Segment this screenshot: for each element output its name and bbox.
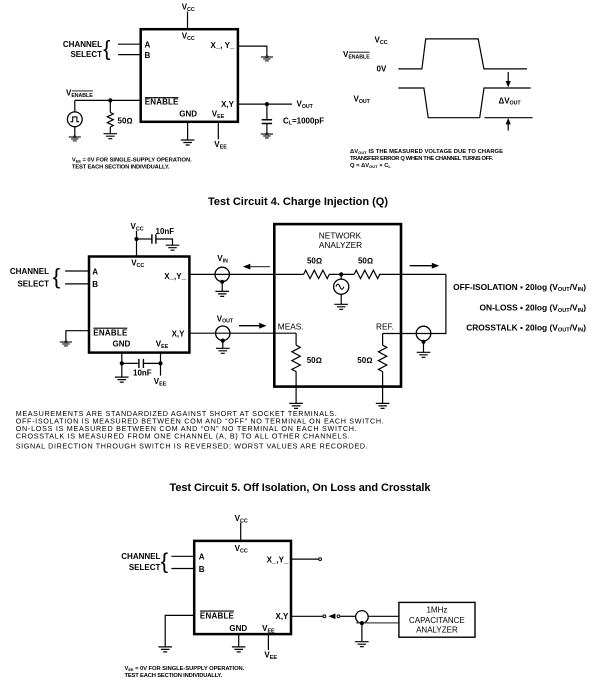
svg-text:ENABLE: ENABLE [145,97,179,106]
wire GND pin [187,122,189,140]
source probe VIN circle [215,267,229,281]
wire X_,Y_ to ground [238,46,267,56]
wire arrowhead left [328,614,335,620]
svg-text:X,Y: X,Y [172,329,186,338]
wire internal top left [276,273,304,275]
wire CL top [266,104,268,119]
svg-text:ON-LOSS ▪ 20log (VOUT/VIN): ON-LOSS ▪ 20log (VOUT/VIN) [480,303,587,314]
wire delta arrow down [507,72,509,83]
svg-text:A: A [145,41,151,50]
wire signal arrow right [239,325,262,327]
wire VEE stub [267,634,269,650]
wire VEE stub [217,122,219,140]
wire VIN to ground [221,282,223,292]
svg-text:VEE = 0V FOR SINGLE-SUPPLY OPE: VEE = 0V FOR SINGLE-SUPPLY OPERATION. [72,157,192,163]
svg-text:0V: 0V [377,65,387,74]
svg-text:CAPACITANCE: CAPACITANCE [409,616,465,625]
svg-text:VENABLE: VENABLE [343,50,370,60]
wire pin B [171,568,194,570]
source probe VOUT circle [216,326,230,340]
terminal open circle X_,Y_ [319,558,322,561]
wire MEAS resistor to ground [295,372,297,404]
node junction dot CL [265,102,269,106]
ground (under X_,Y_) [261,56,273,62]
ground (under pulse source) [69,136,81,142]
svg-text:CHANNEL: CHANNEL [63,40,102,49]
wire Vcc supply stub [187,12,189,30]
svg-text:10nF: 10nF [156,227,175,236]
wire probe to analyzer top [368,615,399,617]
wire output arrow right [410,265,434,267]
wire VOUT to ground [222,341,224,349]
ground (under probe) [355,642,369,647]
svg-text:CROSSTALK ▪ 20log (VOUT/VIN): CROSSTALK ▪ 20log (VOUT/VIN) [466,322,586,333]
svg-text:X,Y: X,Y [221,100,235,109]
svg-text:SELECT: SELECT [129,563,161,572]
svg-text:ANALYZER: ANALYZER [319,240,362,250]
ground (under GND pin) [232,647,246,652]
ground (under resistor) [104,134,118,139]
svg-text:VEE: VEE [156,339,169,350]
node junction dot VEE [158,361,162,365]
svg-text:SIGNAL DIRECTION THROUGH SWITC: SIGNAL DIRECTION THROUGH SWITCH IS REVER… [16,441,368,450]
wire probe to ground [361,623,363,642]
wire X,Y to MEAS [189,332,296,334]
svg-text:50Ω: 50Ω [357,356,372,365]
svg-text:VEE: VEE [212,109,225,120]
resistor R1 50ohm [107,112,113,127]
svg-text:VEE: VEE [262,624,275,635]
wire X_,Y_ open terminal [291,558,318,560]
ground (under CL) [261,133,273,139]
svg-text:VENABLE: VENABLE [66,89,93,99]
source probe REF circle [416,326,431,341]
resistor R5 50ohm vertical [378,345,386,371]
wire pin B [65,283,89,285]
svg-text:1MHz: 1MHz [426,606,447,615]
source V2 (sine generator) [334,279,349,294]
wire Vout lower reference line [485,117,533,119]
wire pin A [118,43,141,45]
terminal open circle X,Y [323,615,326,618]
svg-text:X_,Y_: X_,Y_ [267,556,289,565]
svg-text:50Ω: 50Ω [307,257,322,266]
ground (under 10nF top) [166,245,180,250]
wire source stub [340,274,342,279]
wire REF probe to ground [423,342,425,353]
wire Vcc stub [136,231,138,257]
wire pin A [171,555,194,557]
svg-text:CROSSTALK IS MEASURED FROM ON: CROSSTALK IS MEASURED FROM ONE CHANNEL (… [16,432,350,441]
svg-text:10nF: 10nF [133,368,152,377]
svg-text:VCC: VCC [182,3,195,14]
wire REF to probe loop [383,274,446,333]
wire CL bottom [266,124,268,134]
svg-text:TRANSFER ERROR Q WHEN THE CHAN: TRANSFER ERROR Q WHEN THE CHANNEL TURNS … [350,156,493,162]
wire pulse source bottom [74,127,76,136]
op-amp U3 (network analyzer box) [274,224,401,387]
wire VEE pin down [160,353,162,376]
wire pin B [118,54,141,56]
ground (under ENABLE) [60,341,72,347]
wire resistor top [109,100,111,112]
svg-text:{: { [103,37,110,61]
wire source to ground [340,294,342,304]
ground (under VIN) [215,291,229,296]
wire cap link [122,362,161,364]
svg-text:ENABLE: ENABLE [93,329,128,338]
svg-text:OFF-ISOLATION ▪ 20log (VOUT/VI: OFF-ISOLATION ▪ 20log (VOUT/VIN) [453,282,586,293]
wire Vout trace [398,88,530,118]
svg-text:VEE = 0V FOR SINGLE-SUPPLY OPE: VEE = 0V FOR SINGLE-SUPPLY OPERATION. [125,666,245,672]
wire signal arrow left [248,266,270,268]
svg-text:B: B [199,565,205,574]
svg-text:GND: GND [113,339,131,348]
svg-text:VOUT: VOUT [297,100,314,110]
ground (under GND pin) [115,377,129,382]
ground (under ENABLE) [158,647,172,652]
svg-text:50Ω: 50Ω [307,356,322,365]
wire pulse source top [74,100,76,112]
terminal open circle 2 [337,615,340,618]
resistor R3 50ohm horizontal [354,270,380,278]
svg-text:ΔVOUT: ΔVOUT [499,96,522,106]
svg-text:VEE: VEE [214,140,227,151]
capacitor C2 10nF [139,359,144,368]
wire to probe circle [340,615,356,617]
svg-text:VCC: VCC [375,36,388,47]
svg-text:VCC: VCC [131,258,144,269]
svg-text:B: B [92,280,98,289]
svg-text:VCC: VCC [182,32,195,43]
wire REF branch [382,334,384,346]
node junction dot under probe [360,621,364,625]
svg-text:VOUT: VOUT [217,314,234,324]
svg-text:VOUT: VOUT [354,95,371,105]
svg-text:GND: GND [179,109,197,118]
svg-text:{: { [53,264,61,289]
ground (under REF resistor) [376,403,390,408]
wire cap to ground [156,239,173,245]
svg-text:CHANNEL: CHANNEL [10,267,49,276]
wire X,Y to Vout [238,103,292,105]
svg-text:50Ω: 50Ω [118,116,133,125]
wire enable pulse trace [398,39,527,69]
wire pin A [65,270,89,272]
wire resistor bottom [109,127,111,134]
svg-text:SELECT: SELECT [70,50,102,59]
svg-text:SELECT: SELECT [17,279,49,288]
node junction dot source [339,272,343,276]
svg-text:A: A [199,553,205,562]
svg-text:50Ω: 50Ω [358,257,373,266]
node junction dot under REF probe [421,340,425,344]
ground (under REF probe) [417,352,431,357]
resistor R4 50ohm vertical [292,345,300,371]
node junction dot [108,98,112,102]
svg-text:VEE: VEE [154,377,167,388]
source V1 (pulse generator) [67,112,82,127]
wire Vcc to bypass cap [137,238,152,240]
wire Venable to ENABLE pin [75,99,141,101]
capacitor C1 10nF [152,234,156,243]
svg-text:TEST EACH SECTION INDIVIDUALLY: TEST EACH SECTION INDIVIDUALLY. [72,164,170,170]
svg-text:GND: GND [229,624,247,633]
ground (under MEAS resistor) [289,403,303,408]
node junction dot under VOUT [221,339,225,343]
svg-text:MEAS.: MEAS. [278,322,304,332]
ground (under GND pin) [181,140,195,145]
svg-text:VIN: VIN [217,254,228,264]
svg-text:B: B [145,51,151,60]
svg-text:Test Circuit 5. Off Isolation,: Test Circuit 5. Off Isolation, On Loss a… [170,482,432,494]
wire GND pin [238,634,240,647]
svg-text:CHANNEL: CHANNEL [121,552,160,561]
svg-text:REF.: REF. [376,322,394,332]
node junction dot under VIN [220,280,224,284]
ground (under VOUT) [216,348,230,353]
op-amp U1 (switch IC body) [141,29,238,122]
svg-text:Test Circuit 4. Charge Injecti: Test Circuit 4. Charge Injection (Q) [208,196,388,208]
svg-text:X,Y: X,Y [275,612,289,621]
resistor R2 50ohm horizontal [304,270,330,278]
op-amp U2 (switch IC body) [89,257,189,353]
wire GND pin down [121,353,123,378]
source probe circle [356,611,369,624]
node junction dot GND [120,361,124,365]
capacitor CL 1000pF [262,120,272,124]
wire between resistors [329,273,354,275]
ground (under source) [334,304,348,309]
wire ENABLE to ground [66,331,89,341]
wire delta arrow up [507,123,509,131]
svg-text:VCC: VCC [131,222,144,233]
wire Vcc stub [240,522,242,541]
svg-text:Q = ΔVOUT × CL: Q = ΔVOUT × CL [350,163,391,169]
svg-text:X_, Y_: X_, Y_ [211,41,235,50]
svg-text:X_,Y_: X_,Y_ [164,272,186,281]
op-amp U4 (switch IC body) [194,541,291,634]
wire probe to analyzer bottom [356,622,399,624]
svg-text:VEE: VEE [264,651,277,662]
wire X,Y to terminal [291,615,323,617]
svg-text:VCC: VCC [235,544,248,555]
svg-text:ENABLE: ENABLE [200,611,235,620]
wire ENABLE to ground [165,615,194,647]
wire resistor to right edge [379,273,446,275]
svg-text:TEST EACH SECTION INDIVIDUALLY: TEST EACH SECTION INDIVIDUALLY. [125,673,223,679]
svg-text:{: { [161,548,168,573]
svg-text:ΔVOUT IS THE MEASURED VOLTAGE: ΔVOUT IS THE MEASURED VOLTAGE DUE TO CHA… [350,149,503,155]
wire REF resistor to ground [382,372,384,404]
svg-text:A: A [92,267,98,276]
op-amp U5 (capacitance analyzer box) [399,602,475,637]
svg-text:ANALYZER: ANALYZER [416,625,458,634]
svg-text:CL=1000pF: CL=1000pF [283,116,324,126]
wire MEAS branch [295,333,297,345]
node junction dot Vcc [134,237,138,241]
wire X_,Y_ to network analyzer [189,273,274,275]
